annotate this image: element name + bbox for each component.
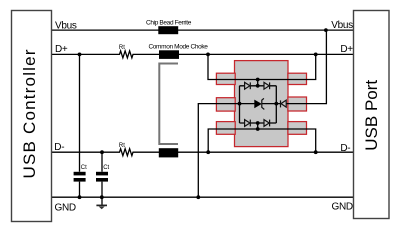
svg-text:Vbus: Vbus: [55, 21, 77, 32]
svg-text:Ct: Ct: [81, 165, 87, 171]
svg-text:D+: D+: [340, 44, 353, 55]
svg-text:USB Port: USB Port: [362, 80, 381, 151]
svg-text:D+: D+: [55, 44, 68, 55]
svg-text:D-: D-: [340, 143, 350, 154]
svg-text:GND: GND: [331, 201, 352, 212]
svg-text:Rt: Rt: [119, 143, 125, 149]
svg-text:Rt: Rt: [119, 45, 125, 51]
svg-text:Common Mode Choke: Common Mode Choke: [148, 43, 208, 50]
svg-text:Vbus: Vbus: [331, 20, 353, 31]
svg-text:USB Controller: USB Controller: [20, 48, 39, 178]
svg-text:Chip Bead Ferrite: Chip Bead Ferrite: [146, 19, 192, 26]
svg-text:D-: D-: [54, 142, 64, 153]
svg-text:GND: GND: [55, 202, 76, 213]
svg-text:Ct: Ct: [103, 165, 109, 171]
